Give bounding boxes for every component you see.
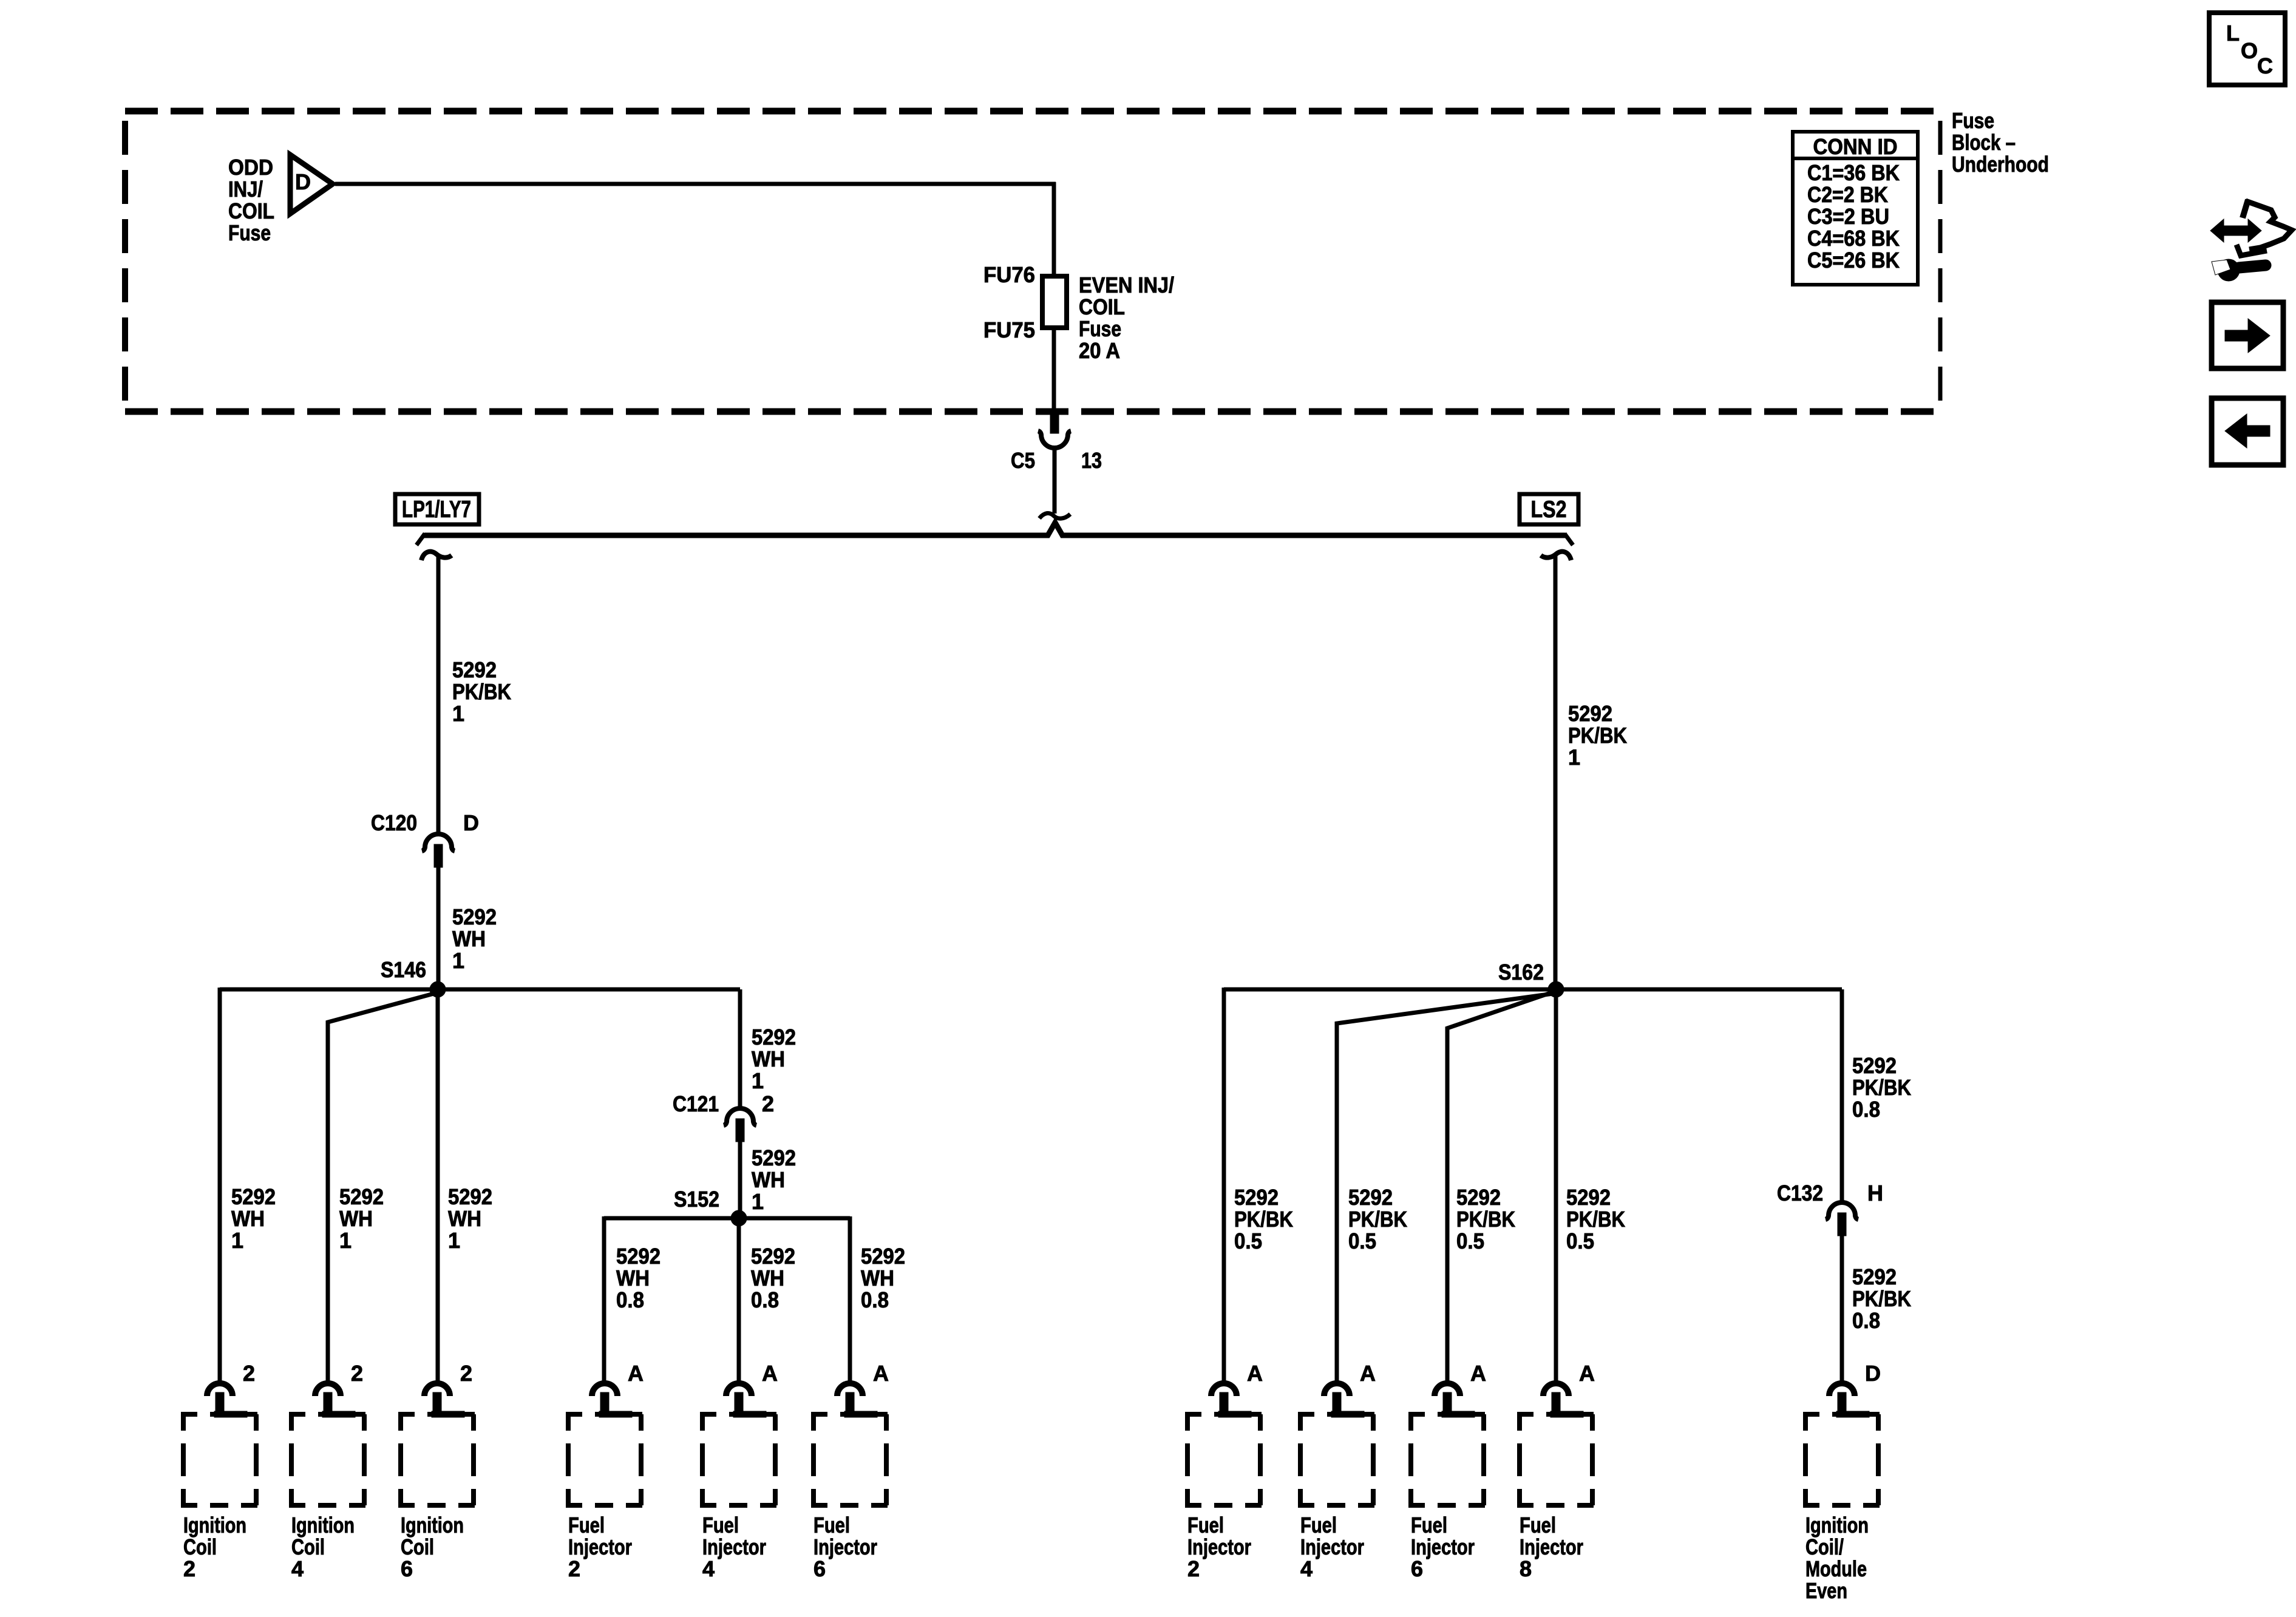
- fuel injector 6 terminal (right): [1408, 1361, 1486, 1581]
- svg-text:2: 2: [243, 1361, 255, 1386]
- label ODD INJ/COIL Fuse: [228, 155, 274, 245]
- svg-text:FU75: FU75: [983, 317, 1035, 342]
- svg-text:Injector: Injector: [1520, 1534, 1583, 1559]
- wire from C5 to split: [1053, 446, 1057, 514]
- S146 bus wire: [220, 988, 740, 992]
- svg-text:LP1/LY7: LP1/LY7: [402, 497, 471, 523]
- wire LS2 branch down to S162: [1554, 555, 1558, 989]
- svg-text:Underhood: Underhood: [1952, 152, 2049, 177]
- fuel injector 8 terminal (right): [1517, 1361, 1595, 1581]
- svg-text:20 A: 20 A: [1079, 338, 1120, 363]
- svg-text:WH: WH: [752, 1167, 785, 1192]
- svg-text:5292: 5292: [1348, 1185, 1393, 1210]
- svg-text:A: A: [628, 1361, 644, 1386]
- svg-text:Fuel: Fuel: [568, 1513, 605, 1537]
- svg-text:1: 1: [752, 1068, 764, 1093]
- engine tag LS2: [1520, 494, 1578, 524]
- svg-text:S146: S146: [381, 957, 426, 982]
- svg-text:6: 6: [401, 1556, 413, 1581]
- svg-text:C5=26 BK: C5=26 BK: [1807, 248, 1900, 273]
- svg-text:LS2: LS2: [1531, 497, 1567, 523]
- svg-text:5292: 5292: [452, 904, 497, 929]
- right branch continuation hook: [1541, 552, 1571, 560]
- wire label 5292 WH 1 (above S146): [452, 904, 497, 973]
- svg-text:WH: WH: [339, 1206, 373, 1231]
- svg-text:0.8: 0.8: [616, 1287, 644, 1312]
- ignition coil 6 terminal: [398, 1361, 476, 1581]
- svg-text:5292: 5292: [231, 1184, 276, 1209]
- svg-text:Fuel: Fuel: [813, 1513, 850, 1537]
- svg-text:Fuse: Fuse: [228, 220, 271, 245]
- svg-text:Ignition: Ignition: [291, 1513, 355, 1537]
- svg-text:Injector: Injector: [1300, 1534, 1364, 1559]
- wire S146 to ignition coil 2: [218, 988, 222, 1381]
- wire S152 to fuel injector 4: [737, 1218, 741, 1381]
- svg-text:6: 6: [1411, 1556, 1423, 1581]
- wire label 5292 PK/BK 0.5 (injector 2): [1234, 1185, 1293, 1253]
- svg-text:5292: 5292: [1852, 1053, 1897, 1078]
- wire label 5292 WH 0.8 (injector 6): [861, 1244, 905, 1312]
- wire break symbol: [1039, 513, 1070, 518]
- svg-text:5292: 5292: [752, 1025, 796, 1049]
- svg-text:4: 4: [702, 1556, 715, 1581]
- CONN ID table: [1793, 132, 1918, 285]
- fuel injector 2 terminal (left): [566, 1361, 644, 1581]
- power feed triangle D (ODD INJ/COIL Fuse): [290, 155, 333, 214]
- svg-text:D: D: [463, 810, 479, 835]
- svg-text:L: L: [2226, 21, 2240, 46]
- svg-text:5292: 5292: [339, 1184, 384, 1209]
- svg-text:2: 2: [1187, 1556, 1200, 1581]
- wire label 5292 PK/BK 0.5 (injector 8): [1566, 1185, 1625, 1253]
- svg-text:Ignition: Ignition: [1805, 1513, 1869, 1537]
- vehicle repair icon (double arrow, body outline, wrench): [2210, 200, 2292, 281]
- svg-text:1: 1: [452, 701, 464, 726]
- svg-text:5292: 5292: [1234, 1185, 1279, 1210]
- wire label 5292 PK/BK 0.8 (above C132): [1852, 1053, 1911, 1122]
- svg-text:5292: 5292: [1456, 1185, 1501, 1210]
- wire label 5292 WH 1 (coil 6): [448, 1184, 492, 1253]
- svg-text:Coil: Coil: [401, 1534, 434, 1559]
- wire C120 to S146: [436, 867, 441, 989]
- connector C132 pin H: [1777, 1181, 1883, 1236]
- svg-text:COIL: COIL: [228, 198, 274, 223]
- svg-text:Fuse: Fuse: [1952, 108, 1994, 133]
- fuel injector 4 terminal (right): [1298, 1361, 1376, 1581]
- wire label 5292 PK/BK 0.8 (below C132): [1852, 1264, 1911, 1333]
- svg-text:Coil: Coil: [291, 1534, 325, 1559]
- svg-text:5292: 5292: [448, 1184, 492, 1209]
- svg-text:5292: 5292: [452, 657, 497, 682]
- svg-text:S162: S162: [1498, 960, 1544, 985]
- svg-text:A: A: [873, 1361, 889, 1386]
- svg-text:Injector: Injector: [702, 1534, 766, 1559]
- svg-text:1: 1: [1568, 745, 1580, 770]
- svg-text:0.8: 0.8: [1852, 1308, 1880, 1333]
- svg-text:PK/BK: PK/BK: [1456, 1207, 1515, 1232]
- svg-text:0.5: 0.5: [1234, 1229, 1262, 1253]
- wire S146 to ignition coil 4 (diagonal): [328, 993, 436, 1381]
- splice S146: [381, 957, 446, 997]
- LOC page icon: [2209, 13, 2285, 85]
- wire C132 to ignition coil module: [1840, 1236, 1844, 1381]
- svg-text:C3=2 BU: C3=2 BU: [1807, 204, 1889, 229]
- svg-text:Coil: Coil: [183, 1534, 217, 1559]
- svg-text:2: 2: [762, 1091, 774, 1116]
- svg-text:COIL: COIL: [1079, 294, 1125, 319]
- svg-text:2: 2: [460, 1361, 472, 1386]
- svg-text:WH: WH: [751, 1266, 784, 1290]
- wire label 5292 WH 1 (above S152): [752, 1145, 796, 1214]
- svg-text:WH: WH: [752, 1046, 785, 1071]
- svg-text:PK/BK: PK/BK: [1234, 1207, 1293, 1232]
- svg-text:WH: WH: [448, 1206, 481, 1231]
- fuel injector 6 terminal (left): [811, 1361, 889, 1581]
- svg-text:5292: 5292: [1852, 1264, 1897, 1289]
- svg-text:PK/BK: PK/BK: [452, 679, 511, 704]
- svg-text:H: H: [1867, 1181, 1883, 1205]
- svg-text:Module: Module: [1805, 1556, 1867, 1581]
- svg-text:Fuel: Fuel: [1520, 1513, 1556, 1537]
- svg-text:WH: WH: [616, 1266, 650, 1290]
- svg-text:Fuel: Fuel: [1187, 1513, 1224, 1537]
- svg-text:PK/BK: PK/BK: [1566, 1207, 1625, 1232]
- ignition coil 2 terminal: [181, 1361, 259, 1581]
- svg-text:C121: C121: [673, 1091, 719, 1116]
- wire S146 to C121: [738, 989, 742, 1108]
- wire label 5292 WH 1 (coil 4): [339, 1184, 384, 1253]
- svg-text:Even: Even: [1805, 1578, 1847, 1603]
- wire label 5292 PK/BK 0.5 (injector 6): [1456, 1185, 1515, 1253]
- wire S162 to C132: [1840, 989, 1844, 1202]
- svg-text:2: 2: [568, 1556, 580, 1581]
- svg-text:A: A: [1579, 1361, 1595, 1386]
- svg-text:5292: 5292: [616, 1244, 661, 1269]
- svg-text:C132: C132: [1777, 1181, 1823, 1205]
- wire label 5292 WH 1 (above C121): [752, 1025, 796, 1093]
- wire label 5292 PK/BK 1 (right): [1568, 701, 1627, 770]
- svg-text:C1=36 BK: C1=36 BK: [1807, 160, 1900, 185]
- svg-text:PK/BK: PK/BK: [1348, 1207, 1407, 1232]
- splice S152: [674, 1187, 747, 1226]
- wire label 5292 PK/BK 0.5 (injector 4): [1348, 1185, 1407, 1253]
- svg-text:WH: WH: [231, 1206, 265, 1231]
- svg-text:O: O: [2241, 38, 2258, 63]
- ignition coil/module even terminal: [1803, 1361, 1881, 1603]
- svg-text:6: 6: [813, 1556, 826, 1581]
- wire S162 to fuel injector 8: [1554, 989, 1558, 1381]
- svg-text:C2=2 BK: C2=2 BK: [1807, 182, 1888, 207]
- svg-text:1: 1: [339, 1228, 352, 1253]
- left branch continuation hook: [421, 552, 452, 560]
- connector C121 pin 2: [673, 1091, 774, 1142]
- svg-text:Injector: Injector: [1187, 1534, 1251, 1559]
- svg-text:Fuse: Fuse: [1079, 316, 1121, 341]
- wire label 5292 WH 0.8 (injector 4): [751, 1244, 795, 1312]
- svg-text:8: 8: [1520, 1556, 1532, 1581]
- svg-text:A: A: [762, 1361, 778, 1386]
- forward page arrow icon: [2212, 302, 2283, 368]
- svg-text:Injector: Injector: [813, 1534, 877, 1559]
- S162 bus wire: [1224, 988, 1842, 992]
- wire S162 to fuel injector 6 (diagonal): [1447, 992, 1554, 1381]
- svg-text:Ignition: Ignition: [401, 1513, 464, 1537]
- svg-text:Injector: Injector: [568, 1534, 632, 1559]
- wire S146 to ignition coil 6: [436, 989, 440, 1381]
- connector C5 pin 13: [1011, 413, 1102, 473]
- svg-text:13: 13: [1081, 448, 1102, 473]
- svg-text:FU76: FU76: [983, 262, 1035, 287]
- fuel injector 4 terminal (left): [700, 1361, 778, 1581]
- fuse FU76/FU75 EVEN INJ/COIL Fuse 20A: [983, 262, 1174, 363]
- engine tag LP1/LY7: [395, 494, 479, 524]
- svg-text:CONN ID: CONN ID: [1813, 134, 1898, 159]
- wire C121 to S152: [738, 1142, 742, 1218]
- splice S162: [1498, 960, 1564, 997]
- svg-text:Fuel: Fuel: [702, 1513, 739, 1537]
- wire S162 to fuel injector 2: [1222, 988, 1226, 1381]
- svg-text:5292: 5292: [752, 1145, 796, 1170]
- svg-text:WH: WH: [452, 926, 486, 951]
- svg-text:Fuel: Fuel: [1300, 1513, 1337, 1537]
- wire S152 to fuel injector 6: [848, 1216, 852, 1381]
- svg-text:0.8: 0.8: [1852, 1097, 1880, 1122]
- svg-text:1: 1: [448, 1228, 460, 1253]
- svg-text:C5: C5: [1011, 448, 1035, 473]
- svg-text:S152: S152: [674, 1187, 719, 1212]
- svg-text:Fuel: Fuel: [1411, 1513, 1447, 1537]
- svg-text:Block –: Block –: [1952, 130, 2016, 155]
- svg-text:C120: C120: [371, 810, 417, 835]
- svg-text:C: C: [2257, 53, 2273, 78]
- wire label 5292 PK/BK 1 (left): [452, 657, 511, 726]
- svg-text:5292: 5292: [751, 1244, 795, 1269]
- svg-text:5292: 5292: [1566, 1185, 1611, 1210]
- svg-text:WH: WH: [861, 1266, 894, 1290]
- svg-text:1: 1: [231, 1228, 243, 1253]
- svg-text:A: A: [1360, 1361, 1376, 1386]
- svg-text:PK/BK: PK/BK: [1852, 1075, 1911, 1100]
- wire S152 to fuel injector 2: [602, 1216, 606, 1381]
- svg-text:0.5: 0.5: [1456, 1229, 1484, 1253]
- svg-text:0.5: 0.5: [1348, 1229, 1376, 1253]
- fuse block underhood dashed boundary: [125, 111, 1940, 412]
- wire from fuse to connector C5: [1052, 328, 1056, 415]
- svg-text:PK/BK: PK/BK: [1852, 1286, 1911, 1311]
- S152 bus wire: [604, 1216, 850, 1221]
- back page arrow icon: [2212, 398, 2283, 465]
- svg-text:INJ/: INJ/: [228, 177, 263, 202]
- svg-text:0.5: 0.5: [1566, 1229, 1594, 1253]
- svg-text:Injector: Injector: [1411, 1534, 1475, 1559]
- svg-text:D: D: [295, 169, 311, 194]
- wire label 5292 WH 1 (coil 2): [231, 1184, 276, 1253]
- svg-text:5292: 5292: [1568, 701, 1612, 726]
- svg-text:4: 4: [1300, 1556, 1313, 1581]
- svg-text:A: A: [1470, 1361, 1486, 1386]
- wire label 5292 WH 0.8 (injector 2): [616, 1244, 661, 1312]
- svg-text:1: 1: [752, 1189, 764, 1214]
- svg-text:ODD: ODD: [228, 155, 273, 180]
- ignition coil 4 terminal: [289, 1361, 367, 1581]
- svg-text:2: 2: [351, 1361, 363, 1386]
- svg-text:1: 1: [452, 948, 464, 973]
- svg-text:5292: 5292: [861, 1244, 905, 1269]
- svg-text:0.8: 0.8: [861, 1287, 889, 1312]
- svg-text:2: 2: [183, 1556, 195, 1581]
- svg-text:A: A: [1247, 1361, 1263, 1386]
- svg-text:Ignition: Ignition: [183, 1513, 246, 1537]
- svg-text:PK/BK: PK/BK: [1568, 723, 1627, 748]
- wire S162 to fuel injector 4 (diagonal): [1337, 994, 1553, 1381]
- svg-text:0.8: 0.8: [751, 1287, 779, 1312]
- connector C120 pin D: [371, 810, 479, 867]
- engine-split bus line with junction peak: [416, 523, 1573, 545]
- wire LP1/LY7 branch down to C120: [436, 555, 441, 834]
- svg-text:C4=68 BK: C4=68 BK: [1807, 226, 1900, 251]
- fuel injector 2 terminal (right): [1185, 1361, 1263, 1581]
- label Fuse Block - Underhood: [1952, 108, 2049, 177]
- svg-text:4: 4: [291, 1556, 304, 1581]
- svg-text:Coil/: Coil/: [1805, 1534, 1844, 1559]
- svg-text:D: D: [1865, 1361, 1881, 1386]
- svg-text:EVEN INJ/: EVEN INJ/: [1079, 273, 1174, 297]
- wire from triangle to fuse FU76: [335, 182, 1056, 279]
